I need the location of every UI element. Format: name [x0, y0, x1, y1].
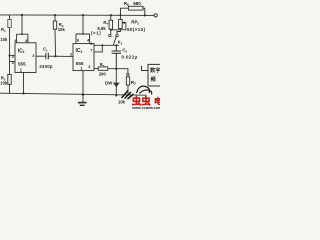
node R6 left junction [120, 14, 122, 16]
svg-text:IC2: IC2 [76, 48, 83, 54]
svg-text:0.022μ: 0.022μ [122, 55, 138, 60]
op-amp U1: IC1 555 timer box [15, 43, 36, 73]
svg-text:IC1: IC1 [18, 48, 25, 54]
svg-text:10k: 10k [58, 27, 66, 32]
svg-text:R6: R6 [124, 1, 129, 7]
svg-text:RP2: RP2 [131, 20, 139, 26]
svg-text:频: 频 [151, 75, 157, 83]
wire IC1 supply stub [16, 15, 28, 43]
potentiometer RP2 wiper arrowhead [122, 21, 125, 24]
svg-text:R4: R4 [103, 20, 108, 26]
svg-text:R1: R1 [1, 27, 6, 33]
svg-text:6: 6 [12, 61, 14, 65]
potentiometer RP2 body [117, 15, 122, 34]
svg-text:680: 680 [133, 1, 141, 6]
svg-text:3: 3 [88, 65, 90, 69]
op-amp U2: IC2 555 timer box [73, 44, 94, 71]
ground [78, 94, 87, 105]
svg-text:10k: 10k [0, 37, 8, 42]
svg-text:10k: 10k [118, 99, 126, 104]
node R6 right junction [144, 14, 146, 16]
resistor R4 [109, 15, 112, 34]
svg-text:C3: C3 [122, 48, 127, 54]
capacitor C3 0.022u [112, 45, 121, 68]
svg-text:DW: DW [105, 80, 113, 85]
wire IC2 pin7 tie to pin6 [94, 45, 102, 52]
wire R5 to output corner [108, 69, 128, 74]
switch K1 contact b [116, 34, 118, 36]
svg-text:数字: 数字 [150, 66, 160, 74]
node top rail junction for R4 [110, 14, 112, 16]
wire IC1 pin6 [10, 56, 16, 62]
resistor R2 [8, 62, 11, 94]
node pins 2-6 junction [9, 55, 11, 57]
node pin1 rail junction [22, 92, 24, 94]
svg-text:电: 电 [154, 96, 160, 106]
terminal circle test point [127, 73, 129, 75]
resistor R5 200 [98, 67, 108, 70]
wire IC2 supply stub [76, 15, 90, 43]
svg-text:6: 6 [90, 42, 92, 46]
resistor R7 10k [126, 77, 129, 95]
svg-text:2: 2 [12, 55, 14, 59]
resistor R3 [53, 15, 56, 56]
wire IC1 pin3 to C1 [36, 55, 46, 57]
wire IC2 pin1 to ground rail [82, 71, 84, 95]
wire IC2 pin6 [94, 44, 119, 46]
node R4 bottom junction [110, 29, 112, 31]
node C3 top junction [115, 44, 117, 46]
svg-text:555: 555 [18, 62, 26, 67]
wire RP2 wiper to R4 node [111, 23, 126, 30]
terminal output circle [154, 14, 157, 17]
svg-text:3300p: 3300p [39, 64, 53, 69]
node top rail junction for IC2 [82, 14, 84, 16]
svg-text:2: 2 [70, 53, 72, 57]
svg-text:50(×10): 50(×10) [127, 27, 146, 32]
wire top V+ rail [0, 14, 154, 17]
node top rail junction for IC1 [21, 14, 23, 16]
svg-text:200: 200 [99, 71, 107, 76]
svg-text:C1: C1 [43, 47, 48, 53]
svg-text:(×1): (×1) [91, 31, 101, 36]
wire IC1 pin1 to ground rail [23, 73, 25, 94]
svg-text:www.ccdzw.com: www.ccdzw.com [131, 106, 160, 110]
wire IC2 pin3 [94, 68, 98, 70]
svg-text:R7: R7 [131, 80, 136, 86]
svg-text:7: 7 [90, 48, 92, 52]
wire bottom rail [0, 93, 146, 95]
switch K1 contact a [109, 34, 111, 36]
wire IC1 pin2 [10, 55, 16, 57]
frequency counter box [148, 64, 160, 86]
capacitor C1 3300p [46, 53, 48, 59]
wire C1 to IC2 pin2 [48, 55, 73, 57]
svg-text:10k: 10k [0, 81, 8, 86]
node DW ground junction [115, 94, 117, 96]
svg-text:R5: R5 [100, 62, 105, 68]
node R3 bottom junction [54, 55, 56, 57]
zener diode DW [113, 69, 119, 96]
watermark black marks [137, 86, 152, 94]
resistor R1 [8, 15, 11, 56]
node pin6-7 junction [101, 44, 103, 46]
switch K1 lever [113, 37, 116, 45]
wire frequency counter box connection [142, 66, 148, 71]
node top rail junction for R3 [54, 14, 56, 16]
svg-text:K1: K1 [118, 40, 123, 46]
svg-text:3: 3 [32, 54, 34, 58]
node output junction [115, 68, 117, 70]
resistor R6 680 [121, 6, 145, 15]
node ground junction [82, 93, 84, 95]
